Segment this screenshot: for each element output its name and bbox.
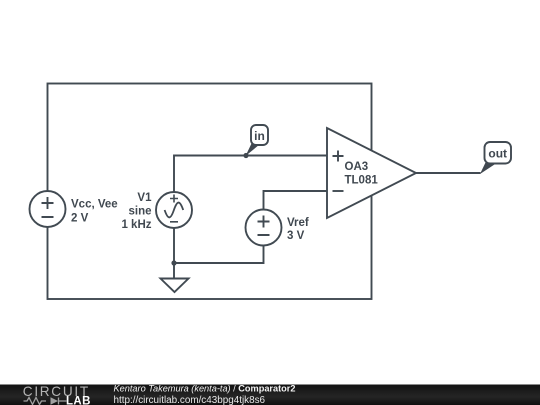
ground xyxy=(161,279,189,293)
svg-text:in: in xyxy=(254,129,265,143)
svg-text:http://circuitlab.com/c43bpg4t: http://circuitlab.com/c43bpg4tjk8s6 xyxy=(114,395,266,405)
svg-text:Vcc, Vee: Vcc, Vee xyxy=(71,199,118,211)
svg-text:2 V: 2 V xyxy=(71,213,89,225)
wire op-amp output xyxy=(416,172,481,174)
wire Vref top to op-amp - input xyxy=(264,191,328,210)
svg-text:Kentaro Takemura (kenta-ta) /: Kentaro Takemura (kenta-ta) / Comparator… xyxy=(114,384,296,394)
svg-text:sine: sine xyxy=(128,206,151,218)
svg-text:1 kHz: 1 kHz xyxy=(121,219,151,231)
label Vcc, Vee 2 V xyxy=(71,199,118,225)
wire V1 bottom to ground node xyxy=(173,228,175,279)
node flag out xyxy=(480,142,511,174)
wire power loop rectangle xyxy=(48,84,372,300)
svg-text:3 V: 3 V xyxy=(287,230,305,242)
op-amp OA3 xyxy=(327,128,416,218)
label V1 sine 1 kHz xyxy=(121,192,152,231)
wire V1 top to op-amp + input xyxy=(174,156,327,193)
svg-text:out: out xyxy=(488,147,507,161)
pin + marker xyxy=(333,151,344,162)
junction dot ground node xyxy=(171,260,176,265)
junction dot xyxy=(243,153,248,158)
voltage source Vcc, Vee xyxy=(30,191,66,227)
svg-text:OA3: OA3 xyxy=(345,161,369,173)
source V1 sine xyxy=(156,192,192,228)
node flag in xyxy=(243,125,268,158)
voltage source Vref xyxy=(246,210,282,246)
svg-text:V1: V1 xyxy=(137,192,152,204)
svg-text:Vref: Vref xyxy=(287,217,309,229)
CircuitLab logo xyxy=(23,384,91,405)
svg-text:LAB: LAB xyxy=(66,395,91,405)
wire Vref bottom to ground node xyxy=(174,246,264,264)
label Vref 3 V xyxy=(287,217,309,242)
pin - marker xyxy=(333,190,344,192)
svg-text:TL081: TL081 xyxy=(345,175,379,187)
